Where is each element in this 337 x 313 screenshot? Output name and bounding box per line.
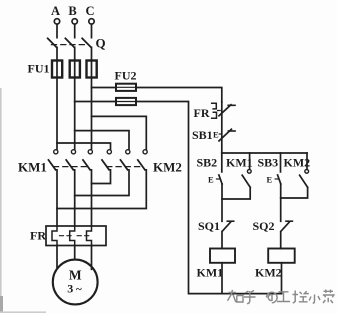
svg-text:SQ1: SQ1 [198,219,220,233]
svg-text:SB3: SB3 [258,156,279,170]
svg-text:FU1: FU1 [28,62,50,76]
svg-text:KM2: KM2 [284,156,311,170]
svg-text:E: E [213,130,219,140]
svg-text:FR: FR [194,106,210,120]
svg-text:E: E [267,175,273,185]
svg-text:E: E [208,175,214,185]
svg-text:KM2: KM2 [255,266,282,280]
svg-text:SQ2: SQ2 [253,219,275,233]
svg-text:3 ~: 3 ~ [67,282,82,296]
svg-text:C: C [85,4,94,18]
svg-text:KM1: KM1 [18,160,47,175]
svg-text:KM1: KM1 [197,266,224,280]
svg-text:M: M [69,268,82,283]
svg-text:KM1: KM1 [226,156,253,170]
svg-text:SB1: SB1 [192,128,213,142]
svg-text:FR: FR [30,229,46,243]
svg-text:SB2: SB2 [197,156,218,170]
svg-text:A: A [51,4,60,18]
svg-text:FU2: FU2 [115,69,137,83]
svg-text:KM2: KM2 [153,160,182,175]
svg-text:Q: Q [96,36,106,51]
svg-text:B: B [68,4,76,18]
